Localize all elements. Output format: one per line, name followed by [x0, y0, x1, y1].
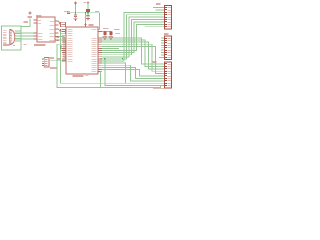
resistor R2: [59, 29, 66, 34]
wire VCC pin IC2: [85, 12, 86, 23]
junction AD0: [104, 58, 105, 59]
wire JP3 pin9: [159, 56, 165, 58]
capacitor C2 with ground: [86, 13, 90, 21]
label JP2: [156, 3, 161, 5]
value label JP4: [153, 88, 165, 89]
connector JP2: [165, 5, 172, 29]
pins IC2 right: [92, 29, 103, 72]
wire net2 loop: [61, 32, 130, 84]
label TX arrow: [57, 37, 60, 38]
capacitor C3: [103, 32, 106, 37]
label X1: [3, 44, 10, 46]
supply VCC top1: [74, 2, 77, 13]
label VCC right: [95, 11, 99, 12]
label JP4: [153, 61, 157, 63]
supply VCC near X1: [24, 12, 33, 23]
wire JP2 pin9: [145, 26, 165, 28]
value label JP1: [50, 67, 57, 69]
wires X1 to IC1: [15, 31, 37, 41]
junction VCC rail b: [87, 12, 89, 14]
inductor L1: [86, 9, 90, 12]
supply VCC top2: [84, 1, 90, 9]
wire JP2 pin1: [153, 7, 165, 9]
wire XTAL rail: [102, 31, 112, 32]
wire VCC rail: [76, 12, 100, 14]
pin labels X1: [3, 30, 7, 44]
wire bus IC2 to JP2: [102, 12, 165, 61]
pins IC1 left: [34, 20, 43, 40]
microcontroller IC2 outline: [66, 27, 98, 74]
wire RXD: [59, 40, 67, 60]
label Q1 area: [57, 58, 61, 60]
wire stubs JP3: [161, 38, 165, 57]
capacitor C7: [64, 11, 76, 13]
crystal Q2 labels: [114, 29, 120, 34]
junctions left: [60, 46, 62, 50]
wire AD7 wrap: [101, 72, 109, 88]
wire bus IC2 to JP4: [102, 38, 165, 83]
label IC2: [89, 24, 94, 26]
wire TXD: [59, 37, 67, 58]
label IC1: [36, 15, 42, 17]
junction VCC rail a: [75, 12, 76, 13]
wire JP1 to IC2: [49, 59, 66, 61]
resistor R1: [59, 21, 66, 27]
wire shield frame around X1: [2, 26, 22, 50]
ground G2: [109, 37, 113, 40]
label C5 C6: [103, 28, 109, 29]
label JP1: [50, 57, 54, 59]
capacitor C4: [109, 32, 112, 37]
value label MAX232: [34, 44, 46, 46]
value label IC2: [73, 75, 89, 77]
connector JP1: [42, 58, 49, 67]
ground G1: [103, 37, 107, 40]
wire net1 loop: [57, 44, 165, 87]
label JP3: [164, 33, 169, 35]
wire JP2 pin2: [156, 9, 165, 11]
wire branch AD0: [105, 59, 165, 86]
capacitor C1 with ground: [74, 13, 78, 21]
wire row48 tail: [102, 47, 119, 49]
label RX arrow: [57, 40, 60, 41]
junction RX: [100, 58, 123, 59]
connector JP3: [165, 36, 172, 60]
wires IC2 left stubs: [61, 46, 63, 50]
op-amp IC1 MAX232 outline: [37, 17, 55, 42]
connector JP4: [165, 62, 172, 88]
pins IC2 left: [62, 29, 73, 62]
wire AVCC drop: [98, 13, 100, 30]
power pin P$1 IC2: [85, 23, 87, 27]
label GND small: [24, 44, 27, 45]
connector X1 (DB9): [10, 29, 15, 46]
pins IC1 right: [50, 21, 59, 41]
wire VCC to frame: [21, 19, 30, 27]
